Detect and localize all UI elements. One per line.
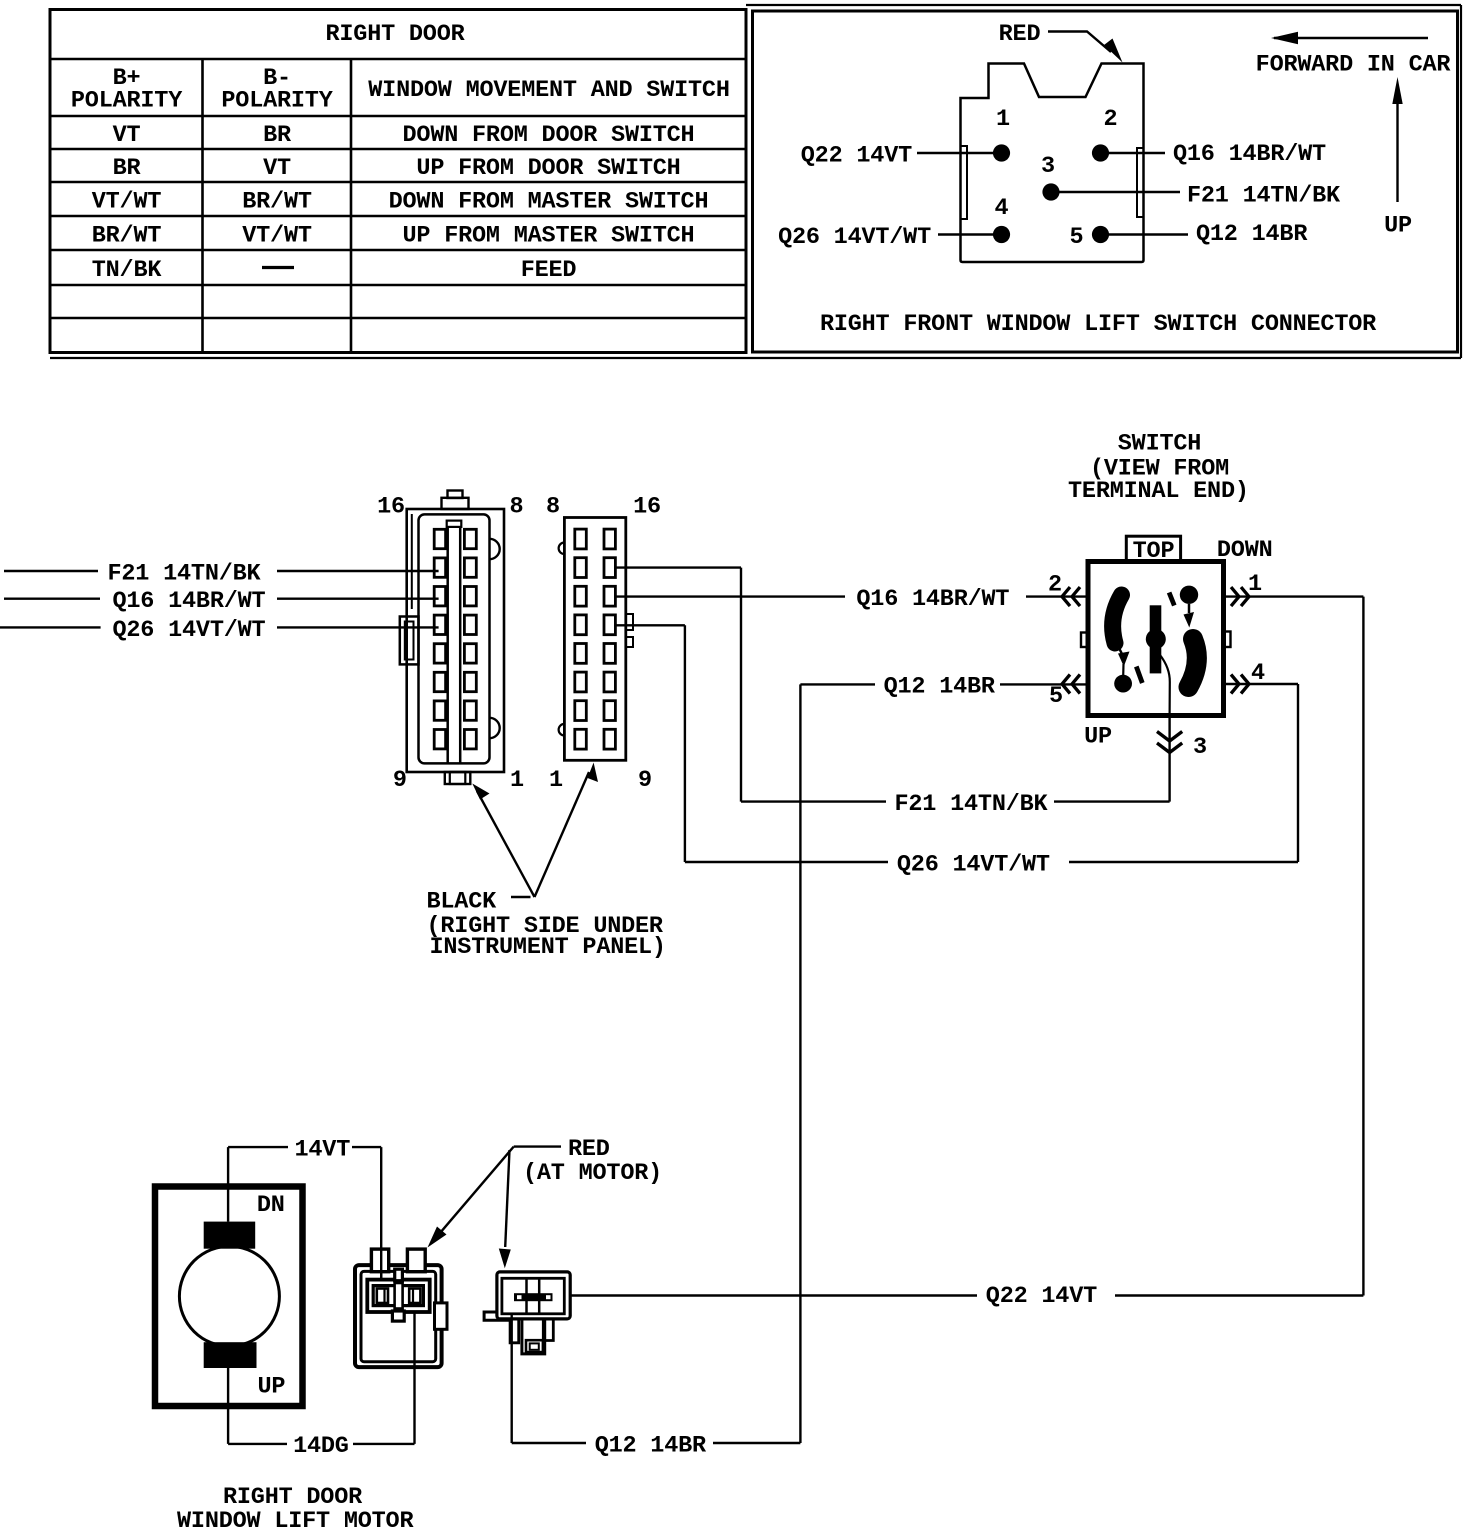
- svg-text:Q16 14BR/WT: Q16 14BR/WT: [113, 588, 266, 615]
- svg-text:UP: UP: [257, 1374, 285, 1401]
- svg-text:WINDOW LIFT MOTOR: WINDOW LIFT MOTOR: [177, 1508, 414, 1535]
- svg-text:Q26 14VT/WT: Q26 14VT/WT: [778, 224, 931, 251]
- svg-text:UP: UP: [1084, 724, 1112, 751]
- svg-text:FORWARD IN CAR: FORWARD IN CAR: [1256, 52, 1452, 79]
- svg-text:Q12 14BR: Q12 14BR: [884, 674, 996, 701]
- svg-text:RIGHT DOOR: RIGHT DOOR: [325, 21, 465, 48]
- svg-text:BR/WT: BR/WT: [242, 189, 312, 216]
- svg-text:POLARITY: POLARITY: [71, 88, 183, 115]
- svg-text:UP FROM DOOR SWITCH: UP FROM DOOR SWITCH: [416, 155, 680, 182]
- svg-text:VT/WT: VT/WT: [242, 223, 312, 250]
- svg-text:VT: VT: [263, 155, 291, 182]
- svg-text:BR: BR: [113, 155, 142, 182]
- svg-text:9: 9: [393, 767, 407, 794]
- svg-text:POLARITY: POLARITY: [221, 88, 333, 115]
- svg-text:RIGHT FRONT WINDOW LIFT SWITCH: RIGHT FRONT WINDOW LIFT SWITCH CONNECTOR: [820, 311, 1377, 338]
- svg-text:8: 8: [510, 494, 524, 521]
- svg-text:3: 3: [1193, 734, 1207, 761]
- svg-text:INSTRUMENT PANEL): INSTRUMENT PANEL): [430, 934, 666, 961]
- svg-text:TERMINAL END): TERMINAL END): [1068, 478, 1249, 505]
- svg-text:16: 16: [633, 494, 661, 521]
- svg-text:UP FROM MASTER SWITCH: UP FROM MASTER SWITCH: [403, 223, 695, 250]
- svg-text:Q16 14BR/WT: Q16 14BR/WT: [856, 586, 1009, 613]
- svg-text:F21 14TN/BK: F21 14TN/BK: [108, 561, 262, 588]
- svg-text:14VT: 14VT: [295, 1136, 351, 1163]
- svg-text:WINDOW MOVEMENT AND SWITCH: WINDOW MOVEMENT AND SWITCH: [368, 77, 729, 104]
- svg-text:F21 14TN/BK: F21 14TN/BK: [1187, 183, 1341, 210]
- svg-text:RED: RED: [999, 21, 1041, 48]
- svg-text:Q22 14VT: Q22 14VT: [986, 1283, 1097, 1310]
- svg-text:VT: VT: [113, 122, 141, 149]
- svg-text:1: 1: [510, 767, 524, 794]
- svg-text:16: 16: [377, 494, 405, 521]
- svg-text:1: 1: [996, 106, 1010, 133]
- svg-text:4: 4: [1251, 660, 1265, 687]
- svg-text:Q12 14BR: Q12 14BR: [595, 1432, 707, 1459]
- svg-text:3: 3: [1041, 153, 1055, 180]
- svg-text:DOWN FROM DOOR SWITCH: DOWN FROM DOOR SWITCH: [403, 122, 695, 149]
- svg-text:BLACK: BLACK: [427, 889, 498, 916]
- svg-text:1: 1: [549, 767, 563, 794]
- svg-text:9: 9: [638, 767, 652, 794]
- svg-text:Q26 14VT/WT: Q26 14VT/WT: [113, 617, 266, 644]
- svg-text:2: 2: [1104, 106, 1118, 133]
- svg-text:5: 5: [1049, 683, 1063, 710]
- svg-text:8: 8: [546, 494, 560, 521]
- svg-text:UP: UP: [1384, 213, 1412, 240]
- svg-text:BR/WT: BR/WT: [92, 223, 162, 250]
- svg-text:Q16 14BR/WT: Q16 14BR/WT: [1173, 141, 1326, 168]
- svg-text:Q26 14VT/WT: Q26 14VT/WT: [897, 852, 1050, 879]
- svg-text:Q12 14BR: Q12 14BR: [1196, 221, 1308, 248]
- svg-text:4: 4: [995, 195, 1009, 222]
- svg-text:(AT MOTOR): (AT MOTOR): [523, 1160, 662, 1187]
- svg-text:1: 1: [1248, 571, 1262, 598]
- svg-text:Q22 14VT: Q22 14VT: [801, 143, 912, 170]
- svg-text:DN: DN: [257, 1192, 285, 1219]
- svg-text:TN/BK: TN/BK: [92, 257, 163, 284]
- svg-text:F21 14TN/BK: F21 14TN/BK: [895, 791, 1049, 818]
- svg-text:VT/WT: VT/WT: [92, 189, 162, 216]
- svg-text:SWITCH: SWITCH: [1118, 431, 1201, 458]
- svg-text:5: 5: [1070, 224, 1084, 251]
- svg-text:BR: BR: [263, 122, 292, 149]
- svg-text:FEED: FEED: [521, 257, 577, 284]
- svg-text:2: 2: [1048, 572, 1062, 599]
- svg-text:DOWN FROM MASTER SWITCH: DOWN FROM MASTER SWITCH: [389, 189, 709, 216]
- svg-text:14DG: 14DG: [293, 1433, 349, 1460]
